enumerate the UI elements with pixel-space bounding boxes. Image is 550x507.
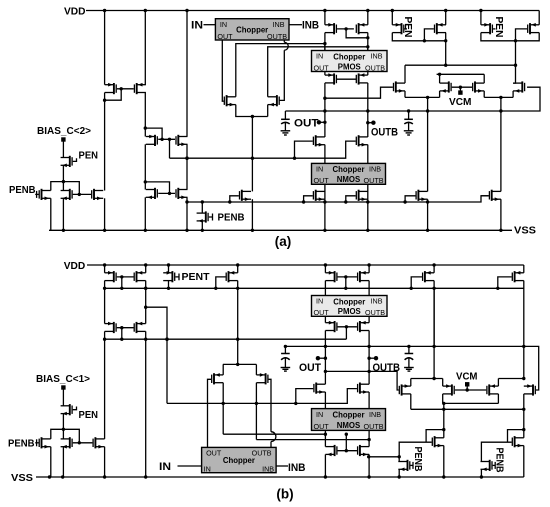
wire MB5 drain up to node B: [62, 429, 64, 439]
wire MB3 source down to node B: [62, 414, 64, 430]
wire MB25 gate to switchA: [399, 442, 431, 461]
wire bus65 down to M27 drain: [404, 65, 406, 83]
svg-text:PENB: PENB: [493, 448, 505, 473]
wire gate bus y288 (b): [105, 287, 524, 289]
wire OUTB sense bus y111: [285, 87, 540, 111]
wire VCM terminal lead (a): [459, 87, 461, 91]
transistor M23 output NMOS: [313, 190, 325, 201]
wire M2 drain down to pair2: [144, 93, 146, 137]
junction switchA tap at OUTB column: [367, 455, 370, 458]
net label PEN (a left): [79, 150, 99, 162]
wire MB1b drain down to bus340: [104, 331, 106, 339]
junction node B (b bias): [62, 428, 65, 431]
junction mirror2 gate node: [344, 27, 347, 30]
svg-text:VCM: VCM: [456, 371, 478, 383]
wire VDD to MBA source: [433, 265, 435, 273]
wire sense bus y346 (b): [285, 346, 538, 390]
wire MB27 source down to bus409: [410, 394, 412, 409]
svg-text:NMOS: NMOS: [337, 421, 360, 430]
svg-text:INB: INB: [371, 297, 383, 306]
net label INB (a): [302, 20, 319, 32]
wire group1 staple down to bus65: [445, 41, 447, 65]
transistor M29 cmfb NMOS: [472, 81, 484, 92]
wire MBB drain down column: [523, 281, 525, 379]
transistor M26 output NMOS: [489, 190, 501, 201]
svg-text:Chopper: Chopper: [223, 456, 255, 465]
wire hop OUTB over drain lines (b): [271, 432, 276, 442]
wire M3 source down to node A: [62, 165, 64, 181]
transistor MBB fold PMOS (b): [512, 271, 524, 282]
wire OUTB column upper (a): [367, 83, 369, 137]
svg-text:IN: IN: [204, 465, 211, 474]
transistor M24 output NMOS: [356, 190, 368, 201]
svg-text:INB: INB: [369, 165, 381, 174]
wire M11 drain up line1: [236, 44, 325, 97]
svg-text:OUTB: OUTB: [373, 362, 401, 374]
probe bullet OUT (b): [316, 356, 320, 360]
wire MB11 drain down to line434: [222, 383, 224, 435]
wire hop OUTB over drain lines: [284, 42, 288, 50]
net label PENB (b left): [8, 438, 35, 450]
block input chopper (b): [202, 447, 277, 473]
svg-text:IN: IN: [220, 20, 227, 29]
wire M20 gate left to column: [516, 29, 528, 41]
net label PENB (b A): [412, 447, 424, 472]
transistor M6 bias mirror NMOS: [91, 189, 103, 200]
wire MB3 gate tick: [73, 407, 77, 410]
wire MB24 source to VSS (b): [368, 454, 370, 477]
wire pair1 column up (b): [433, 288, 435, 378]
junction mirror b1 gate node: [120, 275, 123, 278]
transistor M21 PMOS casc left: [325, 73, 337, 84]
transistor MB2 mirror PMOS (b): [134, 271, 146, 282]
wire PENB tick (b): [36, 439, 38, 446]
wire VDD to MB1 source: [104, 265, 106, 273]
transistor M21n NMOS casc left: [313, 135, 325, 146]
junction pair2 gate bus left: [160, 138, 163, 141]
svg-text:OUT: OUT: [206, 449, 222, 458]
svg-text:Chopper: Chopper: [236, 25, 268, 34]
junction MB2 drain at bus288: [144, 287, 147, 290]
svg-text:OUT: OUT: [299, 362, 321, 374]
svg-text:PENB: PENB: [412, 447, 424, 472]
wire M25 gate riser: [405, 196, 415, 202]
wire mirror2 gate down bus38: [346, 29, 368, 38]
svg-text:BIAS_C<1>: BIAS_C<1>: [36, 373, 90, 385]
wire M6 drain up to bias line: [104, 100, 106, 190]
wire bus74 to M28 drain: [439, 74, 441, 83]
wire mirror b3 gates down to bus288: [345, 277, 347, 288]
junction M8 drain at bus158: [185, 157, 188, 160]
wire mirror b4 gates up to line434: [345, 434, 347, 451]
svg-text:OUTB: OUTB: [365, 308, 385, 317]
block input chopper (a): [215, 19, 289, 41]
transistor MB29 cmfb PMOS: [486, 384, 498, 395]
wire pair1 common top (b): [411, 378, 443, 380]
wire bus y340 (b): [105, 338, 347, 340]
junction M14 drain at bus202: [201, 200, 204, 203]
wire MB13 gate tick bar: [494, 462, 496, 469]
transistor M1 mirror PMOS: [105, 83, 117, 94]
probe bullet OUTB (b): [374, 356, 378, 360]
wire MB26 gate to switchB: [481, 442, 511, 461]
wire group2 column down to M30: [513, 41, 515, 83]
svg-text:IN: IN: [316, 410, 323, 419]
wire MBP1 drain down to bus288: [168, 281, 170, 289]
wire M12 source to tail: [267, 105, 269, 117]
transistor MB3 PEN switch NMOS (b): [61, 404, 73, 415]
wire tail rail (b): [223, 363, 257, 365]
svg-text:PEN: PEN: [493, 17, 505, 38]
transistor MB5 bias NMOS (b): [61, 437, 73, 448]
junction groupA column at bus409: [442, 408, 445, 411]
wire groupB column: [523, 409, 525, 438]
wire M7 drain to M9 top: [144, 144, 146, 189]
transistor MBP1 PENT PMOS: [163, 271, 175, 282]
svg-text:PEN: PEN: [402, 17, 414, 38]
wire box OUT down to M23: [324, 184, 326, 230]
wire MB1 drain down to MB1b: [104, 281, 106, 324]
wire OUTB column lower (a): [367, 145, 369, 164]
junction M5 M6 gate node: [78, 193, 81, 196]
transistor M9 bias NMOS: [146, 188, 158, 199]
transistor MB24 output NMOS (b): [357, 445, 369, 456]
svg-text:IN: IN: [316, 52, 323, 61]
transistor M28 cmfb NMOS: [440, 81, 452, 92]
wire MB28 source down to bus403b: [442, 394, 444, 404]
svg-text:Chopper: Chopper: [332, 165, 364, 174]
wire M24 gate riser: [346, 196, 356, 202]
svg-text:PENT: PENT: [182, 271, 211, 283]
wire box OUTB down to M24: [367, 184, 369, 230]
wire M25 drain up to VCM pair1 foot: [427, 97, 429, 191]
probe bullet OUT (a): [317, 120, 321, 124]
transistor M13 tail NMOS: [239, 190, 251, 201]
wire box OUT down (b): [324, 430, 326, 446]
wire VDD to MB16 source: [368, 265, 370, 273]
terminal BIAS_C<2>: [61, 137, 65, 141]
wire node A to M4 drain: [51, 182, 64, 191]
svg-text:PEN: PEN: [79, 150, 99, 162]
svg-text:PENB: PENB: [218, 212, 245, 224]
junction group2 staple tap: [514, 39, 517, 42]
svg-text:Chopper: Chopper: [333, 52, 365, 61]
transistor M20 diode PMOS: [527, 23, 539, 34]
wire folded bus y74: [437, 73, 485, 75]
wire M5 source to VSS: [62, 198, 64, 230]
wire chopper OUTB down to hop: [283, 40, 285, 42]
wire VDD to MBP2 source: [237, 265, 239, 273]
junction M25 drain VSS: [426, 229, 429, 232]
junction mirror1 gate node: [120, 87, 123, 90]
wire M28 source down: [439, 91, 441, 98]
junction MBc gate node: [345, 325, 348, 328]
svg-text:OUT: OUT: [314, 63, 330, 72]
wire M3 gate tick: [73, 158, 77, 161]
block chopper NMOS (b): [312, 409, 386, 432]
junction pair1 top node (b): [432, 377, 435, 380]
wire M29 source down: [483, 91, 485, 98]
wire M1 M2 gate bus: [117, 88, 134, 90]
transistor M10 bias NMOS: [175, 188, 187, 199]
junction bus74 M28 tap: [438, 73, 441, 76]
wire node B to MB4: [51, 429, 64, 439]
svg-text:(a): (a): [275, 234, 292, 249]
wire PENB tick (a): [36, 191, 38, 198]
junction pair1 foot node: [426, 96, 429, 99]
svg-text:VSS: VSS: [514, 225, 536, 237]
junction link306 tap: [144, 306, 147, 309]
transistor M25 output NMOS: [415, 190, 427, 201]
wire MB29 source down to bus403b: [497, 394, 499, 404]
junction tail node (b): [236, 363, 239, 366]
junction OUT sense at OUT column: [323, 97, 326, 100]
junction dots on VDD rail (a): [103, 9, 483, 12]
junction dots on bus202: [185, 200, 429, 203]
wire output NMOS gate bus y202: [187, 196, 489, 202]
net label PEN (group1): [402, 17, 414, 38]
wire mirror b3 gate bus: [338, 276, 357, 278]
wire bus403b (b): [443, 402, 499, 404]
wire MBB gate left down to bus288: [498, 277, 512, 288]
wire MB6 drain up left column: [104, 339, 106, 439]
wire M5 drain up to node A: [62, 182, 64, 191]
junction MB11 drain at bus403: [222, 402, 225, 405]
junction M15 drain at line1: [323, 42, 326, 45]
svg-text:INB: INB: [371, 52, 383, 61]
transistor MB26 NMOS (b groupB): [512, 436, 524, 447]
wire MB14 gate tick: [410, 464, 413, 466]
transistor M15 mirror2 PMOS: [325, 23, 337, 34]
junction OUT bullet node (b): [324, 357, 327, 360]
transistor MB14 PENB switch (b A): [398, 460, 410, 471]
wire VDD to M15 source: [324, 11, 326, 25]
wire mirror b1 gates down to bus288: [121, 277, 123, 288]
wire line1 to chopperPMOS IN pin: [324, 44, 326, 51]
transistor MB27 cmfb PMOS: [399, 384, 411, 395]
wire input chopper to INB: [289, 24, 302, 26]
junction dots on bus288: [120, 287, 499, 290]
wire MB11 source up to rail: [222, 364, 224, 375]
junction line439 at OUTB column: [367, 438, 370, 441]
junction dots on bus340: [120, 338, 239, 341]
svg-text:INB: INB: [302, 20, 319, 32]
svg-text:PENB: PENB: [9, 184, 36, 196]
junction MB1 drain at bus288: [103, 287, 106, 290]
transistor M2 mirror PMOS: [134, 83, 146, 94]
wire folded bus y65: [405, 64, 516, 66]
junction MB5 MB6 gate node: [78, 441, 81, 444]
wire MB27 drain up: [410, 379, 412, 387]
wire mirror b1 gate bus: [117, 276, 134, 278]
wire M25 source to VSS: [427, 199, 429, 230]
terminal VCM (b): [465, 382, 469, 386]
transistor MB11 input pair left (b): [211, 373, 223, 384]
wire OUTB column mid (b): [368, 331, 370, 385]
svg-text:OUT: OUT: [294, 118, 319, 130]
svg-text:VCM: VCM: [449, 96, 472, 108]
transistor M3 PEN switch NMOS: [61, 156, 73, 167]
svg-text:OUTB: OUTB: [364, 422, 384, 431]
junction M13 gate at bus202: [228, 200, 231, 203]
wire OUT sense bus y98: [325, 87, 393, 98]
block chopper NMOS (a): [312, 163, 386, 185]
net label OUTB (b): [373, 362, 401, 374]
wire M14 drain up to bus202: [201, 202, 203, 213]
wire M14 gate tick PENB: [209, 214, 213, 221]
wire M12 drain up line2: [268, 47, 368, 97]
transistor M30 cmfb NMOS: [513, 81, 525, 92]
junction MB1b drain at bus340: [103, 338, 106, 341]
wire VDD to MBP1 source: [168, 265, 170, 273]
junction mirror b4 diode tap: [345, 433, 348, 436]
wire boxP OUTB down to MBc2: [368, 316, 370, 322]
wire MB2b drain down column: [145, 331, 147, 477]
wire pair2 gate bus: [158, 138, 175, 140]
wire MB23 source to VSS (b): [324, 454, 326, 477]
transistor MB6 bias mirror NMOS (b): [92, 437, 104, 448]
wire BIAS_C<1> down: [62, 388, 64, 406]
capacitor C4 at OUTB (b): [404, 346, 414, 371]
transistor M5 bias NMOS: [61, 189, 73, 200]
wire tail down to M13 drain: [251, 117, 253, 192]
junction group1 at bus65: [444, 63, 447, 66]
net label VSS (a): [514, 225, 536, 237]
svg-text:PMOS: PMOS: [338, 62, 361, 71]
svg-text:OUTB: OUTB: [371, 127, 398, 139]
wire MB4 source to VSS (b): [50, 447, 52, 477]
net label VCM (b): [456, 371, 478, 383]
wire MBc gates down to bus340: [345, 327, 347, 339]
net label VSS (b): [11, 472, 33, 484]
junction pair2 gate bus right: [168, 138, 171, 141]
net label BIAS_C&lt;1&gt;: [36, 373, 90, 385]
net label PENT: [182, 271, 211, 283]
wire chopper OUT down to M11 gate: [222, 40, 223, 101]
svg-text:OUT: OUT: [217, 32, 233, 41]
junction bus371 at OUT column: [324, 370, 327, 373]
wire groupA column: [443, 403, 445, 437]
svg-text:INB: INB: [369, 410, 381, 419]
junction dots on bus346: [284, 345, 526, 348]
wire MBP2 drain down column: [237, 281, 239, 365]
transistor MB25 NMOS (b groupA): [432, 436, 444, 447]
wire M10 source to VSS: [186, 197, 188, 230]
wire MB25 source to VSS: [443, 446, 445, 477]
svg-text:NMOS: NMOS: [337, 175, 360, 184]
wire M21 M22 gate bus: [336, 78, 356, 80]
transistor M22n NMOS casc right: [356, 135, 368, 146]
wire VDD rail (b): [87, 264, 524, 266]
wire MB14 source to VSS: [398, 469, 400, 477]
wire M1 drain down: [104, 93, 106, 101]
wire cascode gate bus y158: [170, 141, 356, 158]
transistor MB15 mirror PMOS (b): [325, 271, 337, 282]
wire pair2 common top (b): [498, 378, 523, 380]
junction groupB column at bus409 end: [522, 408, 525, 411]
terminal VCM (a): [458, 90, 462, 94]
wire M4 source to VSS: [50, 198, 52, 230]
svg-text:OUT: OUT: [314, 176, 330, 185]
net label PENB (b B): [493, 448, 505, 473]
wire MB29 drain up: [497, 379, 499, 387]
junction M16 drain at line2: [366, 45, 369, 48]
wire MB26 source to VSS: [523, 446, 525, 477]
junction groupA column at bus403b: [442, 402, 445, 405]
wire bus409 (b): [411, 408, 524, 410]
svg-text:IN: IN: [191, 20, 203, 32]
transistor MB4 PENB NMOS (b): [39, 437, 51, 448]
wire MB12 source up to rail: [255, 364, 257, 375]
wire M28 gate to VCM node: [452, 86, 472, 88]
wire IN to input chopper: [204, 24, 216, 26]
transistor MB30 cmfb PMOS: [524, 384, 536, 395]
net label OUTB (a): [371, 127, 398, 139]
junction mirror2 diode at M16 drain: [366, 36, 369, 39]
wire VDD corner to MBB source: [523, 265, 525, 273]
wire OUT bullet tick (b): [318, 357, 326, 359]
wire PENB label to MB4 gate: [35, 442, 38, 444]
svg-text:VDD: VDD: [64, 6, 86, 18]
wire VDD to M16 source: [367, 11, 369, 25]
wire VDD down to M8 top: [186, 11, 188, 137]
junction dots on VDD rail (b): [103, 263, 436, 266]
junction pair3 gate bus node: [168, 192, 171, 195]
junction pair3 gate tap: [144, 180, 147, 183]
wire VDD to M18 source: [445, 11, 447, 25]
wire box to INB (b): [276, 465, 288, 467]
wire MB28 drain up: [442, 379, 444, 387]
wire box OUT down to M21 source: [324, 72, 326, 76]
wire OUT column mid (b): [324, 331, 326, 385]
junction group2 column at bus65: [514, 63, 517, 66]
svg-text:Chopper: Chopper: [333, 297, 365, 306]
svg-text:PEN: PEN: [79, 409, 99, 421]
transistor MB12 input pair right (b): [256, 373, 268, 384]
transistor MB16 mirror PMOS (b): [357, 271, 369, 282]
svg-text:PMOS: PMOS: [338, 307, 361, 316]
wire pair1 common foot: [405, 96, 440, 98]
net label OUT (a): [294, 118, 319, 130]
svg-text:INB: INB: [288, 462, 306, 474]
wire bus74 right to M29 drain: [483, 74, 485, 83]
wire mirror b2 gates down to bus340: [121, 328, 123, 340]
wire MB13 source to VSS: [480, 469, 482, 477]
transistor MB1b mirror PMOS (b): [105, 322, 117, 333]
junction OUTB bullet node (b): [367, 357, 370, 360]
wire pair3 gate link: [145, 182, 169, 194]
transistor M16 mirror2 PMOS: [356, 23, 368, 34]
wire BIAS_C<2> to M3 drain: [62, 140, 64, 158]
wire node B to gate link (b): [63, 429, 79, 443]
transistor M8 cascode bias NMOS: [175, 135, 187, 146]
svg-text:IN: IN: [316, 165, 323, 174]
net label PEN (b): [79, 409, 99, 421]
svg-text:OUT: OUT: [314, 422, 330, 431]
wire line434 (b): [223, 433, 325, 435]
transistor M19 PEN PMOS: [481, 23, 493, 34]
svg-text:OUTB: OUTB: [267, 32, 287, 41]
net label PENB (a left): [9, 184, 36, 196]
transistor MBP2 diode PMOS (b): [226, 271, 238, 282]
svg-text:Chopper: Chopper: [332, 410, 364, 419]
wire M23 gate riser: [304, 196, 313, 202]
wire MB15 drain down to boxP IN: [324, 281, 326, 296]
capacitor C2 at OUTB (a): [404, 111, 414, 135]
junction switchA tap node: [398, 455, 401, 458]
net label PENB (a switch): [218, 212, 245, 224]
wire MBc gate bus: [338, 326, 357, 328]
